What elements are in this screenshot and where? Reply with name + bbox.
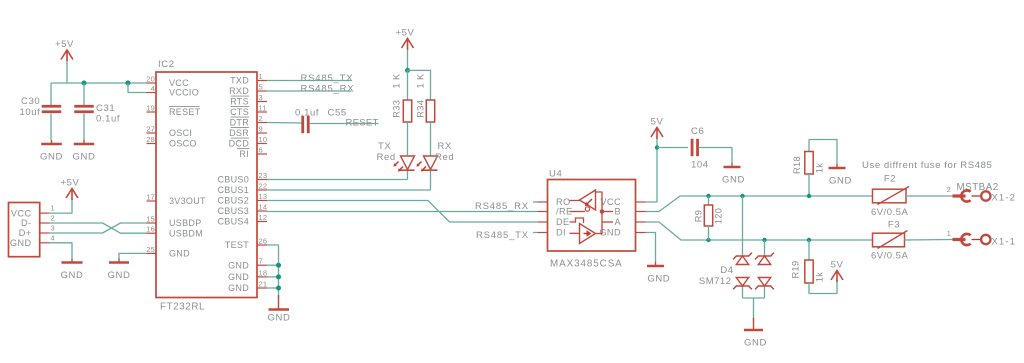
svg-text:R18: R18 (792, 156, 802, 174)
svg-text:2: 2 (947, 185, 951, 194)
svg-text:120: 120 (714, 208, 724, 225)
svg-text:U4: U4 (549, 169, 562, 180)
svg-text:DCD: DCD (229, 139, 250, 149)
svg-text:RI: RI (239, 149, 249, 159)
svg-text:OSCI: OSCI (169, 128, 192, 138)
svg-text:RS485_TX: RS485_TX (476, 230, 529, 241)
svg-text:CTS: CTS (230, 107, 249, 117)
svg-text:RX: RX (438, 141, 452, 152)
svg-text:C6: C6 (691, 126, 704, 137)
svg-text:C55: C55 (328, 108, 347, 119)
svg-text:7: 7 (259, 257, 263, 266)
svg-text:RS485_RX: RS485_RX (301, 84, 355, 95)
svg-text:25: 25 (146, 245, 155, 254)
svg-text:Red: Red (435, 152, 454, 163)
svg-text:VCCIO: VCCIO (169, 88, 199, 98)
svg-text:20: 20 (146, 75, 155, 84)
svg-text:9: 9 (259, 125, 263, 134)
svg-text:RO: RO (556, 197, 571, 207)
svg-text:21: 21 (259, 280, 268, 289)
svg-text:D+: D+ (19, 228, 32, 238)
svg-text:GND: GND (61, 270, 84, 281)
svg-text:VCC: VCC (11, 208, 32, 218)
svg-text:MAX3485CSA: MAX3485CSA (550, 259, 623, 270)
svg-text:USBDM: USBDM (169, 228, 203, 238)
svg-text:CBUS2: CBUS2 (217, 196, 249, 206)
svg-text:0.1uf: 0.1uf (96, 114, 120, 125)
svg-text:D4: D4 (720, 265, 733, 276)
svg-text:CBUS1: CBUS1 (217, 185, 249, 195)
svg-text:3: 3 (51, 224, 55, 233)
svg-text:4: 4 (151, 84, 155, 93)
svg-text:C30: C30 (21, 96, 40, 107)
svg-text:B: B (614, 207, 621, 217)
svg-text:R34: R34 (416, 100, 426, 118)
svg-text:GND: GND (73, 152, 96, 163)
svg-text:X1-2: X1-2 (992, 193, 1016, 204)
svg-text:GND: GND (40, 152, 63, 163)
svg-text:R9: R9 (694, 210, 704, 223)
svg-text:1k: 1k (815, 272, 825, 283)
svg-text:CBUS4: CBUS4 (217, 217, 249, 227)
svg-text:19: 19 (146, 104, 155, 113)
svg-text:RESET: RESET (169, 107, 201, 117)
svg-text:13: 13 (259, 192, 268, 201)
svg-text:TEST: TEST (225, 240, 249, 250)
svg-text:10uf: 10uf (20, 107, 41, 118)
svg-text:18: 18 (259, 268, 268, 277)
svg-text:Red: Red (377, 152, 396, 163)
svg-text:SM712: SM712 (699, 276, 732, 287)
svg-text:3V3OUT: 3V3OUT (169, 196, 206, 206)
svg-text:16: 16 (146, 225, 155, 234)
svg-text:VCC: VCC (169, 78, 189, 88)
svg-text:1: 1 (259, 72, 263, 81)
svg-text:5: 5 (259, 83, 263, 92)
svg-text:1: 1 (51, 204, 55, 213)
svg-text:Use diffrent fuse for RS485: Use diffrent fuse for RS485 (862, 160, 992, 171)
svg-text:TX: TX (378, 141, 391, 152)
svg-text:DI: DI (556, 228, 566, 238)
svg-text:104: 104 (691, 160, 709, 171)
svg-text:C31: C31 (96, 103, 115, 114)
svg-text:15: 15 (146, 215, 155, 224)
svg-text:RXD: RXD (229, 86, 249, 96)
svg-text:RESET: RESET (346, 118, 379, 129)
svg-text:RS485_RX: RS485_RX (475, 201, 529, 212)
svg-text:6V/0.5A: 6V/0.5A (871, 251, 908, 262)
svg-text:CBUS0: CBUS0 (217, 175, 249, 185)
svg-text:22: 22 (259, 182, 268, 191)
svg-text:F3: F3 (888, 220, 900, 231)
svg-text:GND: GND (268, 313, 291, 324)
svg-text:RTS: RTS (230, 97, 249, 107)
svg-text:26: 26 (259, 237, 268, 246)
svg-text:4: 4 (51, 233, 55, 242)
svg-text:F2: F2 (884, 174, 896, 185)
svg-text:RS485_TX: RS485_TX (301, 73, 354, 84)
svg-text:6: 6 (259, 146, 263, 155)
svg-text:TXD: TXD (230, 76, 249, 86)
svg-text:+5V: +5V (55, 39, 74, 50)
svg-text:R33: R33 (392, 100, 402, 118)
svg-text:GND: GND (228, 260, 249, 270)
svg-text:CBUS3: CBUS3 (217, 206, 249, 216)
svg-text:DE: DE (556, 217, 570, 227)
svg-text:VCC: VCC (600, 197, 621, 207)
svg-text:R19: R19 (791, 260, 801, 278)
svg-text:5V: 5V (651, 117, 664, 128)
svg-text:27: 27 (146, 125, 155, 134)
svg-text:GND: GND (744, 338, 767, 349)
svg-text:14: 14 (259, 203, 268, 212)
svg-text:D-: D- (21, 218, 32, 228)
svg-text:2: 2 (51, 214, 55, 223)
svg-text:GND: GND (228, 283, 249, 293)
svg-text:FT232RL: FT232RL (160, 302, 205, 313)
svg-text:2: 2 (259, 114, 263, 123)
svg-text:1k: 1k (815, 163, 825, 174)
svg-text:12: 12 (259, 213, 268, 222)
svg-text:OSCO: OSCO (169, 139, 197, 149)
svg-text:GND: GND (169, 249, 190, 259)
svg-text:GND: GND (108, 270, 131, 281)
svg-text:28: 28 (146, 135, 155, 144)
svg-text:X1-1: X1-1 (992, 237, 1016, 248)
svg-text:1: 1 (947, 229, 951, 238)
svg-text:10: 10 (259, 135, 268, 144)
svg-text:23: 23 (259, 171, 268, 180)
svg-text:GND: GND (722, 175, 745, 186)
svg-text:3: 3 (259, 93, 263, 102)
svg-text:17: 17 (146, 193, 155, 202)
svg-text:DTR: DTR (230, 118, 250, 128)
svg-text:6V/0.5A: 6V/0.5A (871, 207, 908, 218)
svg-text:DSR: DSR (229, 128, 249, 138)
svg-text:1 K: 1 K (392, 73, 402, 88)
svg-text:11: 11 (259, 104, 267, 113)
svg-text:+5V: +5V (61, 178, 80, 189)
svg-text:GND: GND (647, 274, 670, 285)
svg-text:A: A (614, 217, 621, 227)
svg-text:GND: GND (228, 272, 249, 282)
svg-text:GND: GND (10, 238, 32, 248)
svg-text:USBDP: USBDP (169, 218, 202, 228)
svg-text:5V: 5V (831, 260, 844, 271)
svg-text:IC2: IC2 (158, 59, 175, 70)
svg-text:+5V: +5V (396, 28, 415, 39)
svg-text:GND: GND (829, 176, 852, 187)
svg-text:0.1uf: 0.1uf (295, 108, 319, 119)
svg-text:1 K: 1 K (416, 73, 426, 88)
